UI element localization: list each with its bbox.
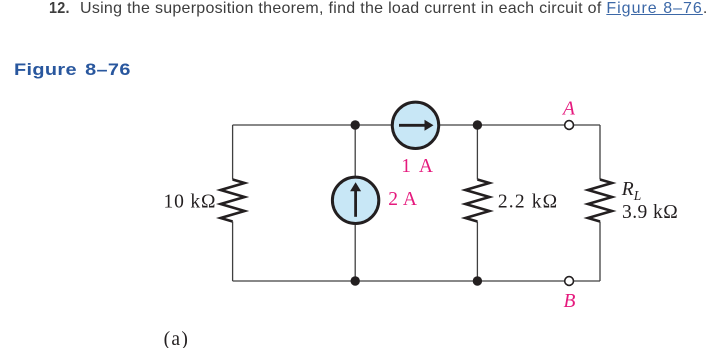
wire bottom: [233, 280, 600, 282]
wire right top: [599, 125, 601, 180]
node dot top-left: [351, 120, 360, 129]
svg-text:B: B: [564, 291, 576, 312]
resistor 2.2k zigzag: [465, 180, 489, 222]
current source I1 arrow: [399, 120, 434, 131]
svg-text:10 kΩ: 10 kΩ: [164, 191, 217, 212]
current source I1 1A circle: [392, 102, 438, 148]
wire branch 2.2k bottom: [476, 222, 478, 282]
terminal A: [565, 121, 574, 130]
svg-text:1 A: 1 A: [401, 156, 435, 177]
resistor 10k zigzag: [221, 180, 245, 222]
wire branch 2A bottom: [354, 223, 356, 281]
wire top: [233, 124, 600, 126]
svg-text:2.2 kΩ: 2.2 kΩ: [498, 192, 558, 213]
node dot bottom-left: [351, 276, 360, 285]
svg-text:(a): (a): [164, 329, 190, 348]
wire branch 2A top: [354, 125, 356, 177]
wire left bottom: [232, 222, 234, 282]
node dot bottom-right: [473, 276, 482, 285]
wire left top: [232, 125, 234, 180]
svg-text:3.9 kΩ: 3.9 kΩ: [622, 202, 678, 223]
wire right bottom: [599, 222, 601, 282]
current source I2 2A circle: [332, 177, 378, 223]
wire branch 2.2k top: [476, 125, 478, 180]
svg-text:RL: RL: [621, 179, 641, 203]
svg-text:A: A: [561, 99, 575, 120]
svg-text:2 A: 2 A: [388, 189, 417, 210]
resistor RL zigzag: [588, 180, 612, 222]
terminal B: [565, 277, 574, 286]
node dot top-right: [473, 120, 482, 129]
current source I2 arrow: [350, 182, 361, 217]
